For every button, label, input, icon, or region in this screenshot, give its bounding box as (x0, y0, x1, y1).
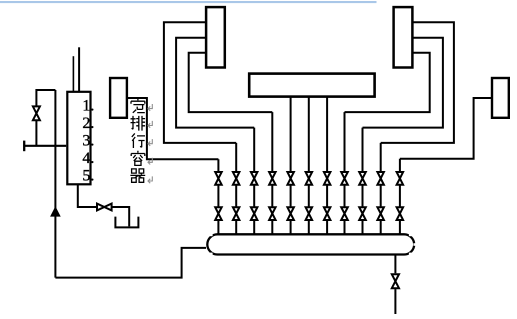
valve V3b (251, 207, 258, 220)
vessel drain pipe (78, 184, 97, 207)
valve V7b (324, 207, 331, 220)
valve V9b (359, 207, 366, 220)
valve V-drain (97, 204, 112, 211)
label char 排 (131, 116, 146, 131)
valve V11a (397, 172, 404, 185)
right expander tank (492, 78, 509, 118)
valve V7a (324, 172, 331, 185)
drop leg 3 (253, 128, 255, 236)
paragraph mark (148, 104, 152, 111)
drop leg 1 (217, 159, 219, 236)
svg-text:3.: 3. (82, 132, 94, 149)
drop leg 5 (290, 97, 292, 236)
valve V-inlet (33, 106, 40, 120)
label char 器 (130, 169, 145, 182)
left drum pipe 3 (189, 53, 273, 112)
label char 容 (131, 151, 145, 166)
window top edge highlight (0, 1, 377, 3)
flow arrow (51, 207, 60, 216)
manifold drain pipe (394, 255, 396, 274)
label char 定 (131, 98, 145, 113)
valve V5b (287, 207, 294, 220)
drain pipe to funnel (112, 207, 129, 226)
valve V4a (269, 172, 276, 185)
valve V8b (341, 207, 348, 220)
pipe tank to column 11 (400, 98, 492, 159)
bottom manifold header (207, 234, 414, 254)
left expander tank (110, 78, 127, 118)
valve V10b (377, 207, 384, 220)
left drum pipe 1 (164, 22, 236, 143)
valve V8a (341, 172, 348, 185)
drop leg 6 (308, 97, 310, 236)
paragraph mark (148, 121, 152, 128)
svg-text:1.: 1. (82, 97, 94, 114)
right drum pipe 3 (345, 53, 430, 112)
valve V1a (215, 172, 222, 185)
bypass loop pipe (36, 90, 55, 146)
drop leg 11 (399, 159, 401, 236)
vent line tall (78, 47, 80, 91)
svg-text:2.: 2. (82, 115, 94, 132)
valve V6a (306, 172, 313, 185)
paragraph mark (148, 176, 152, 183)
vent line short (72, 56, 74, 91)
drop leg 2 (235, 143, 237, 236)
left drum (206, 7, 225, 67)
valve V10a (377, 172, 384, 185)
center header vessel (249, 74, 374, 97)
manifold end arc gaps (210, 233, 213, 237)
left drum pipe 2 (176, 38, 254, 128)
drop leg 8 (344, 112, 346, 236)
main inlet pipe (24, 145, 66, 147)
valve V2b (233, 207, 240, 220)
drop leg 9 (362, 128, 364, 236)
valve V9a (359, 172, 366, 185)
right drum pipe 2 (363, 38, 443, 128)
valve V-manifold-drain (392, 274, 399, 288)
vessel column (67, 92, 90, 185)
pipe cap tick (23, 141, 25, 152)
paragraph mark (148, 158, 152, 165)
svg-text:4.: 4. (82, 150, 94, 167)
drop leg 4 (271, 112, 273, 236)
right drum pipe 1 (381, 22, 454, 143)
valve V6b (306, 207, 313, 220)
right drum (394, 7, 413, 67)
drain outlet pipe (394, 289, 396, 314)
drop leg 7 (326, 97, 328, 236)
valve V3a (251, 172, 258, 185)
svg-text:5.: 5. (82, 168, 94, 185)
valve V11b (397, 207, 404, 220)
label char 行 (132, 133, 145, 148)
drop leg 10 (380, 143, 382, 236)
valve V4b (269, 207, 276, 220)
funnel (115, 217, 138, 228)
return riser pipe (54, 90, 56, 278)
valve V1b (215, 207, 222, 220)
valve V2a (233, 172, 240, 185)
pipe tank to column 1 (127, 98, 218, 159)
paragraph mark (148, 139, 152, 146)
return bottom pipe (55, 248, 206, 278)
valve V5a (287, 172, 294, 185)
